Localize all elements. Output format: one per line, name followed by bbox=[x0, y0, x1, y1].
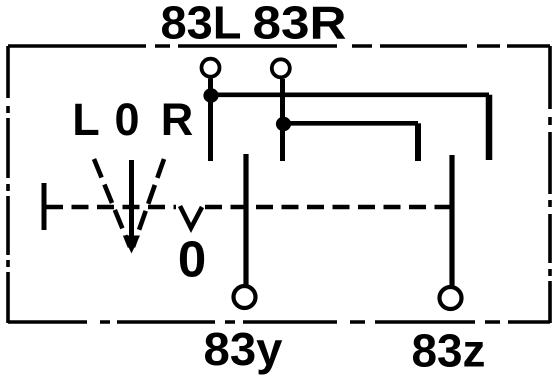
lever alternate position dashed (left) bbox=[94, 159, 130, 247]
svg-text:L: L bbox=[72, 94, 100, 145]
lever alternate position dashed (right) bbox=[133, 159, 164, 247]
junction on 83R wire bbox=[276, 117, 291, 131]
junction on 83L wire bbox=[203, 88, 218, 102]
svg-text:83L: 83L bbox=[161, 0, 242, 49]
switch enclosure dash-dot boundary (bottom side) bbox=[8, 320, 550, 324]
svg-text:0: 0 bbox=[178, 231, 206, 288]
detent notch for 0 position bbox=[180, 206, 202, 228]
svg-text:83z: 83z bbox=[412, 325, 486, 376]
mechanical linkage dashed line (right of detent) bbox=[205, 205, 452, 209]
contact finger (right end of 83L wire) bbox=[486, 95, 493, 160]
wire 83R vertical finger bbox=[280, 79, 285, 161]
switch enclosure dash-dot boundary (right side) bbox=[548, 46, 552, 323]
wire from 83R junction to middle contact bbox=[283, 121, 418, 126]
wire 83z contact bbox=[449, 155, 454, 287]
svg-text:83R: 83R bbox=[253, 0, 347, 49]
svg-text:83y: 83y bbox=[204, 323, 283, 375]
svg-text:0: 0 bbox=[114, 94, 139, 145]
contact finger (right end of 83R wire) bbox=[415, 123, 421, 161]
terminal 83y bbox=[234, 286, 256, 308]
wire from 83L junction to right contact bbox=[211, 92, 489, 97]
terminal 83z bbox=[440, 287, 462, 309]
switch enclosure dash-dot boundary (top side) bbox=[8, 44, 550, 48]
svg-text:R: R bbox=[161, 94, 194, 145]
lever arrow head bbox=[123, 236, 140, 254]
wire 83L vertical finger bbox=[208, 79, 213, 162]
lever arrow shaft bbox=[129, 160, 134, 239]
mechanical linkage dashed line (left of detent) bbox=[46, 205, 176, 209]
travel stop bar bbox=[42, 183, 47, 230]
terminal 83R bbox=[272, 59, 290, 77]
terminal 83L bbox=[202, 59, 220, 77]
switch enclosure dash-dot boundary (left side) bbox=[6, 46, 10, 323]
wire 83y contact bbox=[243, 154, 248, 286]
